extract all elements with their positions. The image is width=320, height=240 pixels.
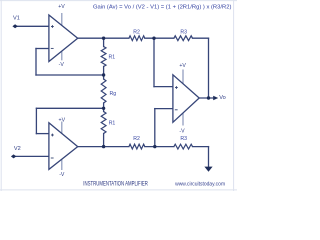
svg-text:+V: +V <box>58 4 65 10</box>
svg-text:Vo: Vo <box>219 95 226 101</box>
svg-text:+V: +V <box>179 63 186 69</box>
svg-text:+V: +V <box>59 117 66 123</box>
svg-text:V1: V1 <box>13 15 20 21</box>
svg-text:R1: R1 <box>109 121 116 127</box>
svg-text:R2: R2 <box>133 136 140 142</box>
svg-text:R3: R3 <box>180 30 187 36</box>
svg-text:R1: R1 <box>109 55 116 61</box>
svg-text:-V: -V <box>59 62 65 68</box>
svg-text:V2: V2 <box>14 146 21 152</box>
svg-text:www.circuitstoday.com: www.circuitstoday.com <box>174 182 225 188</box>
svg-text:R3: R3 <box>180 136 187 142</box>
svg-text:Gain (Av) = Vo / (V2 - V1): Gain (Av) = Vo / (V2 - V1) = (1 + (2R1/R… <box>93 5 232 11</box>
svg-text:INSTRUMENTATION AMPLIFIER: INSTRUMENTATION AMPLIFIER <box>83 180 148 187</box>
svg-text:-V: -V <box>59 172 65 178</box>
svg-text:-V: -V <box>179 129 185 135</box>
svg-text:R2: R2 <box>133 30 140 36</box>
svg-text:Rg: Rg <box>110 91 117 97</box>
